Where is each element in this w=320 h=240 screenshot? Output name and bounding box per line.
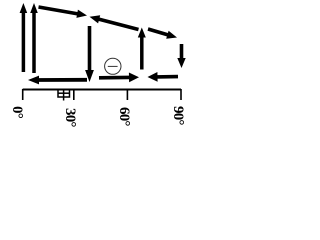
label 30deg — [61, 108, 78, 127]
arrow A11 left — [148, 72, 179, 82]
arrow A3 diag-right-down — [39, 7, 88, 18]
marker circled-minus — [105, 58, 121, 74]
arrow A8 up — [138, 28, 146, 70]
tick 0deg — [22, 89, 24, 100]
arrow A5 left — [28, 76, 87, 85]
axis line — [23, 89, 181, 91]
tick 90deg — [180, 89, 182, 100]
label 90deg — [169, 106, 186, 125]
tick 60deg — [126, 89, 128, 100]
arrow A2 up — [30, 3, 38, 73]
arrow A4 diag-left-up — [90, 15, 139, 29]
label 0deg — [8, 106, 25, 118]
arrow A1 up — [20, 3, 28, 72]
arrow A9 diag-right-down — [148, 29, 177, 39]
label 60deg — [115, 107, 132, 126]
arrow A6 right — [99, 73, 139, 83]
jia symbol — [58, 90, 70, 101]
arrow A7 down — [85, 26, 94, 82]
tick 30deg — [73, 89, 75, 100]
arrow A10 down — [177, 44, 185, 68]
